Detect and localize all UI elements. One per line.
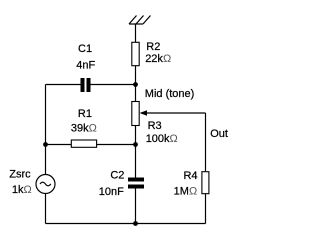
wire C2 bottom to bottom rail xyxy=(135,189,137,224)
node junction dot (left rail / R1) xyxy=(43,142,48,147)
svg-text:C1: C1 xyxy=(78,43,92,55)
potentiometer R3 xyxy=(132,102,139,126)
svg-text:C2: C2 xyxy=(110,169,124,181)
svg-text:Out: Out xyxy=(210,128,228,140)
svg-text:1kΩ: 1kΩ xyxy=(12,184,32,196)
wire R3 bottom to C2 top xyxy=(135,126,137,178)
svg-text:22kΩ: 22kΩ xyxy=(145,53,171,65)
svg-text:R3: R3 xyxy=(148,120,162,132)
node junction dot (bottom rail) xyxy=(133,221,138,226)
node junction dot (C1/R2/R3) xyxy=(133,82,138,87)
node junction dot (R1/R3/C2) xyxy=(133,142,138,147)
resistor R4 xyxy=(202,172,209,194)
wire wiper to right rail xyxy=(147,112,206,114)
wire right rail down to R4 xyxy=(205,113,207,171)
svg-text:R1: R1 xyxy=(78,108,92,120)
svg-text:Mid (tone): Mid (tone) xyxy=(145,88,195,100)
resistor R2 xyxy=(132,42,139,65)
svg-text:1MΩ: 1MΩ xyxy=(174,186,198,198)
svg-text:R2: R2 xyxy=(146,41,160,53)
svg-text:10nF: 10nF xyxy=(99,186,124,198)
svg-text:R4: R4 xyxy=(183,170,197,182)
svg-text:Zsrc: Zsrc xyxy=(9,169,31,181)
source Zsrc xyxy=(36,175,55,194)
svg-text:39kΩ: 39kΩ xyxy=(71,123,97,135)
wire ground to R2 top xyxy=(135,24,137,42)
capacitor C2 xyxy=(128,178,144,189)
wire left rail top (C1 corner down to Zsrc) xyxy=(45,85,47,175)
resistor R1 xyxy=(71,140,96,147)
wire R2 bottom to R3 top xyxy=(135,66,137,101)
chassis ground (top) xyxy=(129,16,151,25)
wire R1 left segment xyxy=(46,144,72,146)
wire C1 left segment xyxy=(46,84,82,86)
wiper arrow of R3 xyxy=(140,110,148,116)
wire C1 right segment xyxy=(91,84,136,86)
wire Zsrc bottom to bottom rail xyxy=(45,194,47,224)
wire R4 bottom to bottom rail xyxy=(205,194,207,224)
bottom rail wire xyxy=(46,223,206,225)
svg-text:100kΩ: 100kΩ xyxy=(146,133,178,145)
capacitor C1 xyxy=(81,78,91,92)
wire R1 right segment xyxy=(97,144,136,146)
svg-text:4nF: 4nF xyxy=(76,60,95,72)
